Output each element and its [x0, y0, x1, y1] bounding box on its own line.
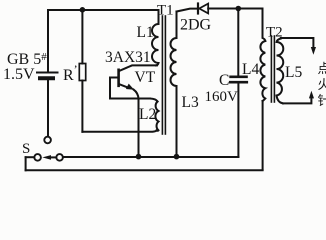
transistor Q1 emitter arrowhead: [126, 84, 134, 90]
wire switch line left hook: [25, 157, 27, 170]
transformer T1 core line 1: [161, 16, 163, 134]
resistor R' body: [79, 64, 85, 81]
svg-text:L4: L4: [242, 61, 259, 78]
svg-text:T2: T2: [266, 25, 283, 41]
svg-text:L1: L1: [137, 24, 154, 41]
svg-text:L3: L3: [182, 94, 199, 111]
svg-text:火: 火: [318, 77, 326, 92]
wire T2 primary bottom lead: [262, 101, 264, 170]
svg-text:L2: L2: [139, 106, 156, 123]
wire diode to top right rail: [208, 8, 262, 10]
wire switch line left: [26, 156, 35, 158]
svg-text:1.5V: 1.5V: [3, 66, 35, 83]
wire top rail left: [48, 9, 159, 11]
node emitter junction dot: [136, 154, 142, 160]
transformer T1 winding L1: [152, 10, 158, 65]
transformer T2 core line 2: [273, 36, 275, 102]
svg-text:针: 针: [318, 93, 326, 108]
switch S slide arrowhead: [42, 155, 51, 160]
switch S contact 1: [34, 154, 41, 161]
transformer T2 winding L5: [277, 39, 284, 104]
svg-text:点: 点: [318, 61, 326, 76]
svg-text:S: S: [22, 141, 30, 157]
diode VD 2DG cathode bar: [197, 4, 199, 14]
node L3 bottom junction dot: [174, 154, 180, 160]
wire L5 bottom output: [283, 98, 311, 104]
wire L2 top entry: [150, 99, 158, 102]
transformer T1 winding L3: [171, 12, 177, 157]
svg-text:160V: 160V: [205, 89, 239, 105]
svg-text:3AX31: 3AX31: [105, 49, 151, 66]
electrode arrow top: [311, 47, 316, 55]
switch S upper contact: [44, 137, 51, 144]
svg-text:T1: T1: [157, 3, 174, 19]
transformer T1 winding L2: [155, 102, 158, 131]
capacitor C plate bottom: [230, 81, 247, 84]
switch S slide arrow line: [50, 156, 56, 158]
transformer T2 winding L4: [260, 41, 265, 101]
wire R to L2 bottom: [82, 131, 156, 132]
transistor Q1 emitter: [120, 84, 128, 87]
node C top junction dot: [236, 6, 242, 12]
transistor Q1 base bar: [117, 70, 120, 86]
wire T2 primary top lead: [263, 9, 266, 42]
battery GB plate negative: [40, 76, 53, 80]
node J1 (R branch junction dot): [80, 7, 86, 13]
wire capacitor top lead: [237, 9, 239, 76]
wire base loop: [110, 78, 150, 99]
transformer T1 core line 2: [164, 16, 166, 134]
wire battery negative lead: [47, 81, 49, 137]
transformer T2 core line 1: [270, 36, 272, 102]
svg-text:L5: L5: [285, 64, 302, 81]
svg-text:2DG: 2DG: [180, 17, 212, 34]
wire L5 top output: [281, 38, 314, 48]
svg-text:VT: VT: [135, 69, 156, 86]
wire L3 top to diode: [177, 9, 197, 12]
capacitor C plate top: [231, 76, 247, 79]
wire battery positive lead: [47, 10, 49, 71]
svg-text:C: C: [219, 72, 229, 89]
electrode arrow bottom: [309, 91, 314, 99]
svg-text:R’: R’: [63, 62, 78, 84]
wire emitter to switch line: [134, 90, 139, 157]
wire resistor bottom lead: [81, 81, 83, 132]
battery GB plate positive: [37, 72, 58, 74]
wire resistor top lead: [81, 10, 83, 64]
switch S contact 2: [56, 154, 63, 161]
diode VD 2DG triangle: [199, 4, 208, 14]
wire capacitor bottom lead: [237, 84, 239, 157]
wire switch line right: [63, 156, 239, 158]
wire bottom rail: [26, 169, 263, 171]
transistor Q1 collector: [120, 65, 158, 70]
